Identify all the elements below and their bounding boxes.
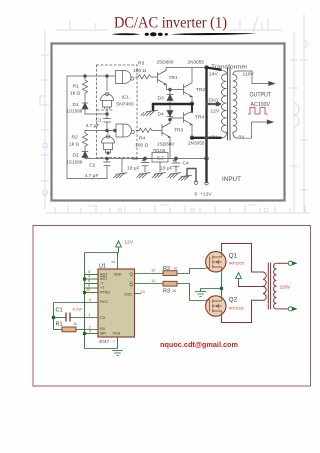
wire: thick center tap wire [207,103,221,105]
IC U1 4047 body [98,269,135,337]
svg-text:C4: C4 [183,161,190,167]
node: R1 top junction [84,75,87,78]
op-amp gate IC1c (horizontal NAND) [116,124,134,137]
wire: pin6 stub [85,283,99,285]
wire: top rail y67.5 [166,67,207,69]
ground G1 under IC1 [114,173,127,178]
svg-text:110V: 110V [243,72,255,78]
overline for Qbar [100,276,133,282]
wire: Q2 drain to transformer bottom [222,300,264,322]
svg-text:10: 10 [151,268,156,273]
svg-text:0V: 0V [211,135,218,141]
svg-text:12: 12 [86,287,90,292]
transformer T1 core [228,68,231,140]
svg-text:TR1: TR1 [169,75,179,81]
wire: R3 to TR1 base [152,76,158,78]
svg-text:IC1: IC1 [122,95,130,101]
svg-text:TR2: TR2 [196,87,206,93]
node: junction TR4 emitter / 0V wire [190,136,194,140]
svg-text:MR: MR [100,332,106,336]
schematic panel (white box with gray border) [52,44,285,201]
waveform: AC100V square wave (red) [248,108,268,115]
node: faint bottom component marks [88,205,268,212]
wire: VDD top rail [85,252,119,254]
wire: output arrowhead bottom [267,120,273,124]
wire: pin10 to R2 [135,273,164,275]
wire: pin7 drop [117,337,119,349]
svg-text:Transformer: Transformer [211,65,248,71]
svg-text:+12V: +12V [200,192,212,198]
svg-text:Q1: Q1 [229,252,238,259]
transistor TR4 [184,111,193,125]
diode D1 [82,103,88,109]
wire: gate1 short stub to node [106,108,108,113]
svg-text:2SD880: 2SD880 [157,142,174,147]
wire: TR4 emitter down [191,124,193,136]
svg-text:4.7uF: 4.7uF [73,307,84,312]
svg-text:0V: 0V [239,135,246,141]
svg-text:4.7 μF: 4.7 μF [85,173,99,179]
svg-text:IRF3205: IRF3205 [229,260,244,265]
wire: secondary top output [237,71,269,84]
wire: bottom-left rail [67,178,107,180]
wire: secondary bottom lead [276,308,288,310]
svg-text:R3: R3 [138,61,145,67]
svg-text:12V: 12V [211,109,220,115]
node: junction C1 top [106,113,109,116]
svg-text:10: 10 [173,265,178,270]
svg-text:4.7 μF: 4.7 μF [86,123,100,129]
node: gate1 output junction [106,75,109,78]
wire: left RC rail [53,303,55,330]
wire: VSS bottom wire [85,348,118,350]
wire: IC2 ground pin [159,162,161,172]
wire: TR2 emitter down [191,96,193,102]
ground G4 under C4 [168,173,181,178]
transistor TR1 [158,71,167,85]
transformer T1 primary winding [221,70,227,138]
wire: top rail y76 [67,75,115,77]
diode D2 [82,152,88,158]
svg-text:R1: R1 [73,84,80,90]
transistor Q1 IRF3205 [206,252,226,273]
svg-text:VDD: VDD [114,272,122,276]
wire: R1 left lead [54,329,63,331]
resistor R2 box [163,271,177,276]
transistor TR2 [184,83,193,97]
wire: faint background right rails [290,14,308,212]
svg-text:OSC: OSC [124,292,132,296]
wire: R1 top stem [84,76,86,80]
wire: dashed internal divider [97,109,112,111]
node: tie junction 3 [83,332,85,334]
svg-text:DC/AC inverter (1): DC/AC inverter (1) [114,15,227,32]
wire: TR3 emitter down [169,137,171,159]
svg-text:2N3055: 2N3055 [188,141,205,146]
power terminal +12V arrow (green) [116,241,122,253]
wire: pin5 stub [85,274,99,276]
wire: pin11 to R3 [135,283,164,285]
capacitor C1 (bottom schematic) [66,313,70,322]
wire: cross link y130 [85,130,116,132]
op-amp gate IC1a (NAND, output up) [101,92,114,109]
dashed box around IC1 SN7400 [97,65,138,158]
svg-text:IC2: IC2 [157,156,165,161]
wire: D1 bottom to node [84,109,86,114]
ground G0 (thick stub and hatch) [152,104,155,110]
svg-text:1S1588: 1S1588 [67,160,83,165]
resistor R4 [139,128,153,132]
ground: U1 ground symbol [112,351,123,356]
svg-text:1S1588: 1S1588 [67,109,83,114]
wire: D4 top stem [169,105,171,111]
transformer TX1 primary winding [263,272,266,301]
svg-text:C1: C1 [56,308,63,314]
wire: output arrowhead top [269,82,275,86]
ground G2 under C3 [137,173,150,178]
wire: thick 0V tap wire [192,137,221,139]
node: TR1 emitter junction [169,88,172,91]
capacitor C4 [172,159,180,173]
svg-text:AST: AST [100,277,108,281]
capacitor C2 [104,159,111,179]
node: C4 junction [175,157,178,160]
svg-text:9: 9 [89,328,91,333]
wire: pin9 MR stub [85,333,99,335]
wire: IC2 input lead [135,158,153,160]
svg-text:RX: RX [100,327,106,331]
wire: R1-D1 link [84,96,86,103]
svg-text:11: 11 [151,278,155,283]
node: C1 tap junction [52,316,54,318]
resistor R1 [82,80,87,96]
svg-text:24V: 24V [209,72,218,78]
wire: pin13 OSC stub [135,293,142,295]
terminal: output arrow top (green) [288,261,296,265]
svg-text:1k Ω: 1k Ω [70,91,81,97]
node: bus junction TR2 emitter [190,102,194,106]
svg-text:4047: 4047 [99,339,110,345]
node: C2 top junction [106,157,109,160]
svg-text:2SD880: 2SD880 [157,60,174,65]
capacitor C1 [104,114,111,130]
node: faint left rail junctions [40,96,48,195]
wire: 0-terminal jog [187,169,196,182]
wire: D2 stems [84,148,86,159]
svg-text:100 Ω: 100 Ω [133,68,147,74]
svg-text:TR3: TR3 [174,128,184,134]
svg-text:10 μF: 10 μF [127,166,140,172]
wire: R3 input from gate [136,76,139,78]
svg-text:(3A): (3A) [209,98,219,104]
node: D4 bottom junction [169,118,172,121]
svg-text:D2: D2 [73,153,80,159]
svg-text:12V: 12V [125,240,134,246]
node: terminal +12V [205,182,208,185]
wire: TR2 collector up [191,68,193,83]
node: bus junction y138 [205,136,209,140]
svg-text:VSS: VSS [113,332,121,336]
svg-text:R3: R3 [163,289,170,295]
svg-text:TR4: TR4 [195,115,205,121]
svg-text:100 Ω: 100 Ω [135,143,149,149]
resistor R2 [82,131,87,149]
wire: C1 right lead to pin1 [71,317,99,319]
wire: gate3 output lead [136,130,139,132]
wire: thick 24V tap wire [207,68,221,70]
wire: faint background schematic left rail [41,30,49,210]
svg-text:R2: R2 [72,135,79,141]
svg-text:C1: C1 [96,118,103,124]
svg-text:C2: C2 [89,163,96,169]
svg-text:nquoc.cdt@gmail.com: nquoc.cdt@gmail.com [160,340,238,349]
svg-text:Q2: Q2 [229,297,238,304]
node: junction y130 [106,129,109,132]
wire: D3 stems [169,90,171,105]
node: bus junction y158 [205,157,209,161]
node: gate2 input junction [107,152,110,155]
node: C3 junction [144,157,147,160]
wire: R4 to TR3 base [153,130,163,132]
wire: 5V rail y158 [85,158,207,160]
ground G5 at 0 terminal [179,175,192,180]
resistor R1 box (bottom schematic) [62,327,76,332]
ground: source ground symbol [195,292,206,297]
wire: R2 to Q1 gate [177,269,206,274]
divider ornament under title [112,32,258,36]
svg-text:14: 14 [111,259,116,264]
wire: thick ground bus y104 [153,103,192,106]
svg-text:D1: D1 [73,102,80,108]
transistor TR3 [162,123,170,138]
power terminal 12V arrow at center tap (green) [236,273,242,284]
svg-text:C3: C3 [132,156,139,162]
svg-text:7: 7 [113,339,115,344]
wire: R3 to Q2 gate [177,284,206,301]
wire: IC1 ground stub [121,159,123,173]
svg-text:1k: 1k [73,321,77,326]
svg-text:AST: AST [100,272,108,276]
wire: faint slanted lead top right [253,16,268,32]
svg-text:10: 10 [172,288,177,293]
wire: pin14 drop [117,253,119,270]
svg-text:IRF3205: IRF3205 [229,305,244,310]
IC2 78L05 regulator box [152,153,168,163]
svg-text:13: 13 [141,289,145,294]
wire: TR1 emitter down [166,85,168,90]
node: terminal 0 [194,181,197,184]
wire: pin8 stub [85,287,99,289]
svg-text:D4: D4 [158,112,165,118]
node: center tap junction [216,102,220,106]
node: source junction [220,287,222,289]
svg-text:R4: R4 [139,136,146,142]
diode D3 [167,95,173,101]
wire: C1 left lead [54,317,66,319]
transistor: faint arcs right margin [294,40,307,127]
node: top rail junction [205,66,209,70]
wire: gate1 output lead [106,76,108,91]
wire: TR3 collector up [169,120,171,123]
svg-text:1k Ω: 1k Ω [69,142,80,148]
svg-text:3: 3 [89,297,91,302]
svg-text:RCC: RCC [100,300,108,304]
svg-text:RTRG: RTRG [100,291,110,295]
svg-text:1: 1 [89,312,91,317]
wire: Q1 source to Q2 source [221,272,223,296]
wire: TR4 base link [170,117,184,119]
wire: junction to ground [201,289,222,292]
frame: bottom schematic border [33,226,311,387]
svg-text:10 μF: 10 μF [160,166,173,172]
svg-text:U1: U1 [99,264,106,270]
svg-text:D3: D3 [158,96,165,102]
wire: left tie rail [84,253,86,349]
svg-text:220V: 220V [280,284,292,289]
transformer TX1 secondary winding [274,263,277,309]
wire: emitter link y89.5 [167,89,184,91]
resistor R3 box [163,281,177,286]
wire: secondary top lead [276,262,288,264]
wire: faint background bottom rail [45,205,310,213]
wire: pin3 RCC wire [54,302,99,304]
wire: pin12 stub [85,292,99,294]
wire: TR1 collector to top rail [165,68,167,71]
svg-text:SN7400: SN7400 [116,102,134,108]
wire: secondary bottom output [237,122,267,138]
wire: center tap feed [239,284,264,287]
terminal: output arrow bottom (green) [288,307,296,311]
svg-text:2N3055: 2N3055 [188,60,205,65]
svg-text:0: 0 [195,192,198,198]
svg-text:78L05: 78L05 [153,148,166,153]
transistor Q2 IRF3205 (mirrored) [206,296,226,316]
wire: gate2 output stub [107,131,109,134]
op-amp gate IC1d (horizontal NAND, top) [116,71,134,84]
wire: left outer rail [66,76,68,179]
ground G3 under IC2 [152,173,165,178]
transformer TX1 core [268,263,270,310]
wire: pin4 stub [85,278,99,280]
wire: thick +12V vertical bus [205,68,207,183]
svg-text:+T: +T [100,286,105,290]
svg-text:INPUT: INPUT [222,176,241,183]
svg-text:CX: CX [100,316,106,320]
wire: faint background top traces behind title [56,19,282,30]
diode D4 [167,111,173,117]
wire: horizontal link y114 [85,113,107,115]
wire: R1 right lead to pin2 [76,329,98,331]
wire: thick bus drop to TR4 collector [191,104,193,112]
node: tie junction 2 [83,291,85,293]
op-amp gate IC1b (NAND, output up) [102,135,115,153]
node: tie junction 1 [83,278,85,280]
wire: Q1 drain to transformer top [222,244,264,273]
capacitor C3 [141,159,149,173]
resistor R3 [138,75,152,79]
svg-text:OUTPUT: OUTPUT [250,92,272,99]
node: gate3 input junction [114,129,117,132]
transformer T1 secondary winding [233,71,238,138]
